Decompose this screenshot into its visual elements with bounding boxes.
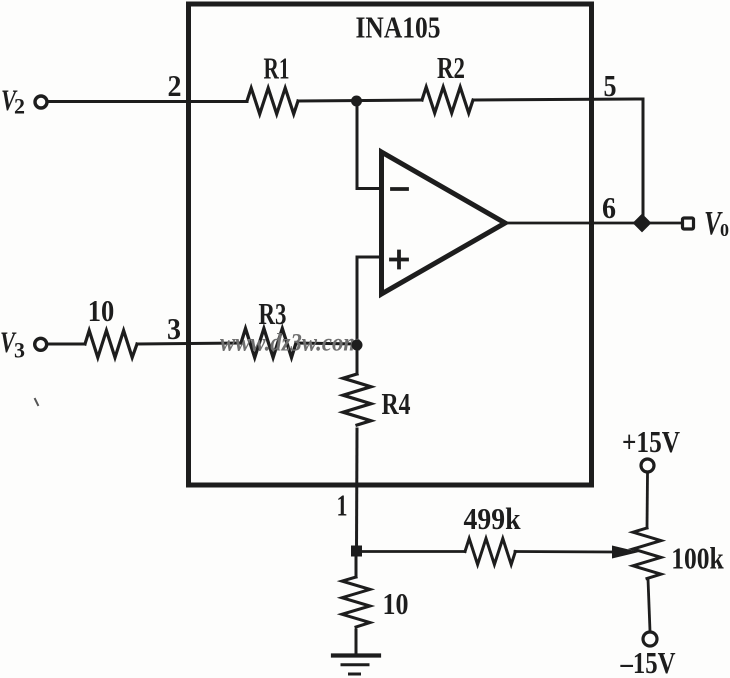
wiper arrow into potentiometer xyxy=(612,546,639,559)
resistor 499k xyxy=(465,539,515,565)
svg-text:3: 3 xyxy=(167,311,181,346)
wire junction down to op-amp inverting input xyxy=(357,101,381,189)
svg-text:1: 1 xyxy=(337,488,348,523)
wire pot bottom to -15V terminal xyxy=(648,579,650,631)
svg-text:499k: 499k xyxy=(464,501,522,536)
op-amp U1 triangle xyxy=(382,152,506,294)
IC box U1 INA105 outline xyxy=(189,4,592,485)
resistor 10 (to ground) xyxy=(342,577,370,627)
wire R2 to pin5 corner then down to output node xyxy=(474,99,643,223)
wire R4 to pin1 node (crosses box bottom) xyxy=(355,429,359,551)
ground symbol xyxy=(333,653,379,657)
wire pot top to +15V terminal xyxy=(646,474,649,528)
resistor 10 (V3 input) xyxy=(85,331,137,358)
svg-text:R3: R3 xyxy=(259,296,287,331)
resistor R1 xyxy=(247,88,298,114)
wire input resistor to R3 xyxy=(137,343,241,344)
wire resistor to ground xyxy=(355,630,358,654)
potentiometer 100k body xyxy=(633,528,661,579)
svg-text:10: 10 xyxy=(88,293,115,328)
svg-text:100k: 100k xyxy=(671,541,724,576)
svg-text:2: 2 xyxy=(14,94,25,119)
terminal V3 xyxy=(35,338,47,350)
wire node to R4 xyxy=(356,345,359,374)
svg-text:R2: R2 xyxy=(437,50,465,85)
svg-text:www.dz3w.com: www.dz3w.com xyxy=(220,330,361,357)
node junction R3/R4/non-inverting xyxy=(352,340,363,351)
wire op-amp non-inverting input to R3/R4 node xyxy=(357,257,381,341)
wire V3 to input resistor xyxy=(48,343,85,346)
svg-text:R1: R1 xyxy=(264,51,290,86)
node junction R1/R2/inverting input xyxy=(351,96,362,107)
wire R3 to node xyxy=(296,343,357,344)
wire op-amp output to node and terminal xyxy=(505,222,681,225)
svg-text:+15V: +15V xyxy=(622,424,680,459)
resistor R4 xyxy=(343,374,371,425)
svg-text:5: 5 xyxy=(604,68,617,103)
terminal +15V xyxy=(641,459,654,472)
wire pin1 node to 499k xyxy=(356,550,465,553)
svg-text:–15V: –15V xyxy=(620,645,676,678)
minus sign at inverting input xyxy=(392,187,407,191)
svg-text:3: 3 xyxy=(14,338,25,363)
terminal V2 xyxy=(35,96,47,108)
svg-text:R4: R4 xyxy=(382,386,411,421)
resistor R3 xyxy=(241,329,296,358)
node output junction pin6 xyxy=(634,215,650,231)
wire R1 to R2 xyxy=(298,100,422,101)
node junction pin1 xyxy=(351,546,362,557)
svg-text:10: 10 xyxy=(383,586,409,621)
resistor R2 xyxy=(422,87,473,113)
wire pin1 node to ground resistor xyxy=(355,551,358,577)
svg-text:INA105: INA105 xyxy=(356,10,441,45)
wire 499k to wiper arrow xyxy=(515,550,614,553)
terminal V0 xyxy=(683,218,694,229)
svg-text:0: 0 xyxy=(720,220,729,240)
svg-text:6: 6 xyxy=(602,190,616,225)
terminal -15V xyxy=(643,632,657,646)
plus sign at non-inverting input xyxy=(391,252,407,268)
wire V2 to R1 xyxy=(48,100,247,103)
stray scan mark xyxy=(35,399,38,405)
svg-text:2: 2 xyxy=(168,68,182,103)
